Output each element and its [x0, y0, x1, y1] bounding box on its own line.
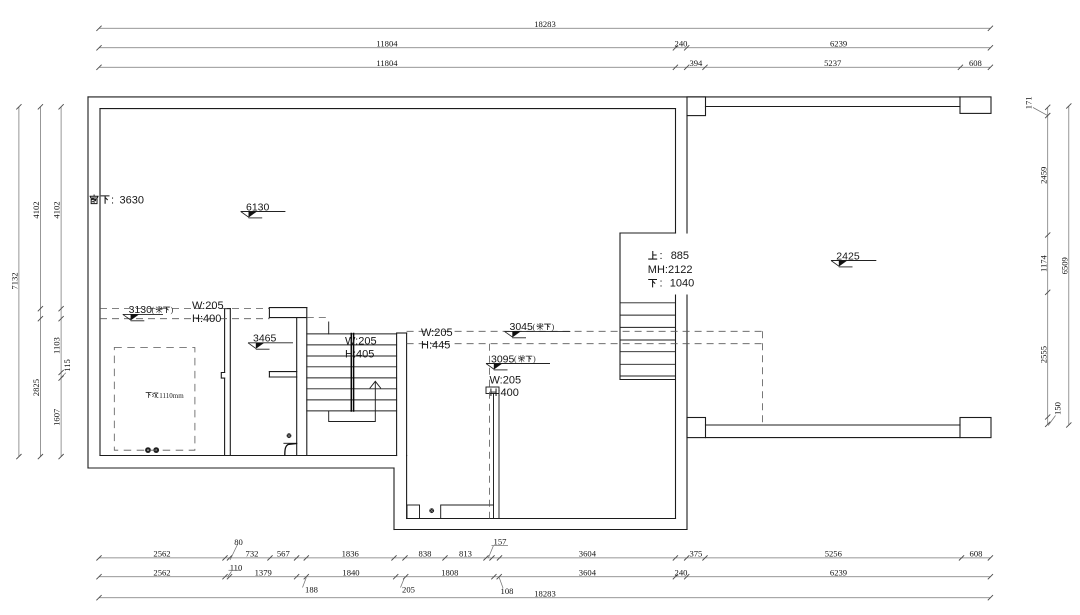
- wire beam A upper dashed line: [100, 308, 269, 310]
- svg-text:2425: 2425: [836, 250, 860, 262]
- wire dim col R1: [1047, 107, 1049, 424]
- svg-text:): ): [171, 306, 174, 315]
- wire lower stair treads: [307, 334, 397, 411]
- wire center wall inner line upper segment: [675, 109, 677, 233]
- svg-text:1808: 1808: [441, 567, 458, 577]
- svg-text:(: (: [533, 323, 536, 332]
- svg-text:): ): [533, 355, 536, 364]
- wire foyer bottom outer line: [394, 529, 687, 531]
- wire room2 top wall lower line: [269, 317, 306, 319]
- svg-text:4102: 4102: [52, 201, 62, 218]
- svg-text:813: 813: [459, 549, 472, 559]
- wire beam C vertical dashed line: [489, 344, 491, 519]
- svg-text:115: 115: [62, 359, 72, 372]
- node lower stair walk arrow: [370, 381, 381, 388]
- DASHED-GROUP: [100, 309, 763, 519]
- svg-text:2825: 2825: [31, 379, 41, 396]
- svg-text:1836: 1836: [342, 549, 360, 559]
- node level marker 3465: [248, 333, 293, 350]
- svg-text:11804: 11804: [376, 58, 398, 68]
- wire foyer bottom inner line: [407, 518, 676, 520]
- svg-text:3095: 3095: [491, 353, 515, 365]
- svg-text:1607: 1607: [52, 408, 62, 426]
- wire dim col R2: [1068, 106, 1070, 425]
- wire ticks row A: [96, 26, 993, 31]
- node text window-sill 3630: [90, 194, 144, 206]
- wire ticks col L3: [59, 104, 64, 459]
- svg-text:11804: 11804: [376, 38, 398, 48]
- wire ticks col L1: [16, 104, 21, 459]
- svg-text:5256: 5256: [825, 549, 843, 559]
- node top pier mid: [687, 97, 706, 116]
- wire stair room right wall top cap: [397, 332, 407, 334]
- svg-text:3604: 3604: [579, 549, 597, 559]
- wire dim col L1: [18, 107, 20, 457]
- wire ticks row 1: [96, 555, 993, 560]
- svg-text:W:205: W:205: [345, 336, 377, 348]
- svg-text:2562: 2562: [153, 549, 170, 559]
- wire dim row 3: [99, 597, 990, 599]
- wire terrace bottom wall bottom line: [706, 437, 961, 439]
- node bottom pier right: [960, 418, 991, 438]
- wire stair room left wall left line: [296, 318, 298, 456]
- wire leader 150: [1048, 416, 1055, 426]
- svg-text:240: 240: [675, 38, 688, 48]
- svg-text:H:405: H:405: [345, 349, 374, 361]
- wire dim row 2: [99, 576, 990, 578]
- svg-text:1174: 1174: [1038, 254, 1048, 272]
- wire bottom-left wall outer line: [88, 467, 394, 469]
- svg-text:205: 205: [402, 585, 415, 595]
- wire leader 108: [499, 578, 503, 589]
- node level marker 3045 under-beam: [505, 321, 571, 338]
- svg-text:394: 394: [689, 58, 703, 68]
- svg-text:157: 157: [494, 537, 508, 547]
- node sunken room knob right: [153, 447, 159, 453]
- wire left wall inner line: [99, 109, 101, 456]
- node beam section box: [486, 387, 499, 394]
- node level marker 3095 under-beam: [486, 353, 550, 370]
- svg-text:567: 567: [277, 549, 291, 559]
- svg-text:): ): [552, 323, 555, 332]
- wire dim row 1: [99, 557, 990, 559]
- svg-text:375: 375: [689, 549, 702, 559]
- svg-text:2555: 2555: [1038, 346, 1048, 363]
- svg-text:W:205: W:205: [490, 375, 522, 387]
- wire upper stair treads: [620, 303, 676, 380]
- wire leader 171: [1033, 108, 1048, 116]
- wire beam column line right: [498, 394, 500, 519]
- svg-text:1840: 1840: [342, 567, 359, 577]
- node sunken room knob left: [145, 447, 151, 453]
- wire ticks row B: [96, 45, 993, 50]
- svg-text:838: 838: [419, 549, 432, 559]
- wire underline 110: [229, 569, 242, 571]
- wire leader 205: [401, 578, 405, 588]
- svg-text:188: 188: [305, 585, 318, 595]
- node bottom pier mid: [687, 418, 706, 438]
- svg-text:6130: 6130: [246, 201, 270, 213]
- wire upper stair well left edge: [619, 233, 621, 380]
- svg-text:18283: 18283: [534, 19, 555, 29]
- wire leader 115: [61, 373, 66, 379]
- wire sunken room wall top cap: [225, 308, 231, 310]
- svg-text:110: 110: [230, 563, 243, 573]
- svg-text:150: 150: [1053, 402, 1063, 415]
- node bath door top line: [284, 442, 297, 444]
- wire leader 188: [303, 578, 307, 588]
- wire center wall outer line upper segment: [686, 116, 688, 233]
- wire beam B lower dashed line: [407, 343, 763, 345]
- wire sunken room wall left line: [224, 309, 226, 456]
- svg-text:108: 108: [501, 586, 514, 596]
- wire left wall outer line: [87, 97, 89, 468]
- svg-text:3604: 3604: [579, 567, 597, 577]
- svg-text:3630: 3630: [120, 195, 144, 207]
- node foyer step platform: [441, 505, 494, 519]
- wire stair room right wall right line: [406, 333, 408, 456]
- node foyer door box: [407, 505, 420, 519]
- wire dim row A: [99, 27, 990, 29]
- svg-text:6509: 6509: [1060, 257, 1070, 274]
- svg-text:5237: 5237: [824, 58, 842, 68]
- wire underline 157: [492, 545, 509, 547]
- wire ticks row 2: [96, 574, 993, 579]
- wire stair room left wall right line: [306, 308, 308, 456]
- wire leader 157: [488, 546, 493, 558]
- svg-text:MH:2122: MH:2122: [648, 264, 693, 276]
- svg-text:W:205: W:205: [421, 327, 453, 339]
- svg-text:(: (: [514, 355, 517, 364]
- svg-text:608: 608: [969, 58, 982, 68]
- svg-text::: :: [660, 278, 663, 290]
- node level marker 2425: [831, 250, 876, 267]
- node text stair up 885: [649, 250, 689, 262]
- svg-text:7132: 7132: [10, 272, 20, 289]
- MARKERS-GROUP: [123, 201, 877, 370]
- wire leader 80: [230, 545, 238, 561]
- wire ticks col L2: [38, 104, 43, 459]
- wire ticks row 3: [96, 595, 993, 600]
- svg-text:W:205: W:205: [192, 300, 224, 312]
- wire bottom-left wall inner line: [100, 455, 397, 457]
- wire lower stair center rail: [351, 334, 353, 412]
- wire top wall inner line left section: [100, 108, 676, 110]
- wire room2 stub upper line: [269, 371, 296, 373]
- svg-text:H:445: H:445: [421, 339, 450, 351]
- wire beam A lower dashed line right bit: [307, 317, 329, 319]
- node level marker 3130 under-beam: [123, 304, 174, 321]
- svg-text:240: 240: [675, 567, 688, 577]
- svg-text:1040: 1040: [670, 278, 694, 290]
- svg-text:1379: 1379: [255, 567, 272, 577]
- node level marker 6130: [241, 201, 286, 218]
- svg-text:18283: 18283: [534, 588, 555, 598]
- wire upper stair well top edge: [620, 232, 676, 234]
- node text sunken 1110mm: [146, 392, 184, 400]
- svg-text:80: 80: [234, 537, 243, 547]
- wire ticks row C: [96, 65, 993, 70]
- svg-text:2459: 2459: [1038, 167, 1048, 184]
- svg-text::: :: [660, 250, 663, 262]
- wire lower stair walk line: [329, 382, 376, 422]
- svg-text:H:400: H:400: [192, 313, 221, 325]
- node sunken room wall jog: [221, 373, 224, 379]
- wire room2 top wall upper line: [269, 307, 306, 309]
- wire lower stair top spur: [328, 322, 330, 334]
- wire beam column line left: [493, 394, 495, 519]
- STAIRS-GROUP: [145, 303, 675, 519]
- wire beam B upper dashed line: [407, 330, 763, 332]
- wire room2 stub lower line: [269, 376, 296, 378]
- svg-text:1103: 1103: [52, 337, 62, 354]
- node foyer floor drain: [429, 508, 434, 513]
- svg-text:732: 732: [246, 549, 259, 559]
- node bath floor drain: [287, 433, 292, 438]
- svg-text:2562: 2562: [153, 567, 170, 577]
- wire stair room right wall left line: [396, 334, 398, 456]
- wire dim row B: [99, 47, 990, 49]
- svg-text:1110mm: 1110mm: [159, 392, 184, 400]
- svg-text:885: 885: [671, 250, 689, 262]
- wire center wall outer line lower segment: [686, 295, 688, 530]
- svg-text:608: 608: [970, 549, 983, 559]
- node text stair down 1040: [649, 278, 695, 290]
- wire foyer left wall outer line: [393, 468, 395, 530]
- svg-text::: :: [111, 194, 114, 206]
- wire center wall inner line lower segment: [675, 295, 677, 519]
- wire ticks col R1: [1045, 105, 1050, 427]
- node top pier right: [960, 97, 991, 114]
- wire dim col L2: [39, 107, 41, 457]
- wire beam B vertical dashed line: [762, 331, 764, 425]
- svg-text:3045: 3045: [510, 321, 534, 333]
- wire top wall inner line right section: [706, 106, 961, 108]
- svg-text:4102: 4102: [31, 201, 41, 218]
- wire foyer left wall inner line: [406, 456, 408, 519]
- svg-text:3130: 3130: [129, 304, 153, 316]
- svg-text:3465: 3465: [253, 333, 277, 345]
- wire sunken room wall right line: [229, 309, 231, 456]
- svg-text:(: (: [152, 306, 155, 315]
- wire beam A lower dashed line: [100, 318, 269, 320]
- node sunken area dashed rectangle: [114, 348, 195, 451]
- svg-text:H:400: H:400: [490, 387, 519, 399]
- wire room2 top wall end cap: [268, 308, 270, 318]
- svg-text:6239: 6239: [830, 567, 847, 577]
- svg-text:6239: 6239: [830, 38, 847, 48]
- wire leader 110: [228, 572, 232, 578]
- svg-text:171: 171: [1024, 96, 1034, 109]
- wire ticks col R2: [1066, 103, 1071, 427]
- wire dim row C: [99, 66, 990, 68]
- wire terrace bottom wall top line: [706, 424, 961, 426]
- wire dim col L3: [60, 107, 62, 457]
- WALLS-GROUP: [88, 97, 991, 530]
- wire top wall outer line: [88, 96, 960, 98]
- ANNOT-GROUP: [90, 194, 694, 400]
- wire room2 stub end cap: [268, 372, 270, 377]
- node bath door leaf: [285, 444, 297, 456]
